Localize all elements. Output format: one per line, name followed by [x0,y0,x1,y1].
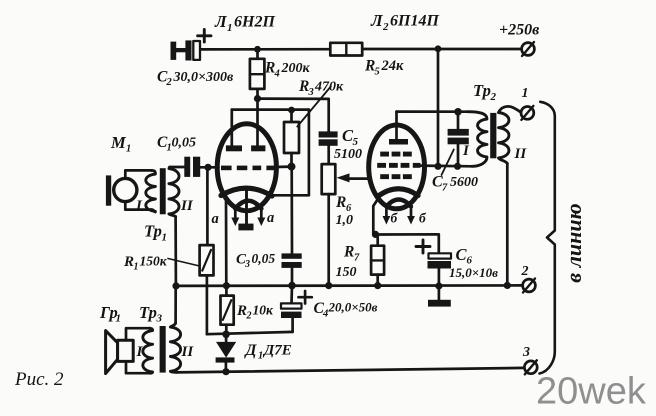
node junction R4 top on rail [254,46,261,53]
wire C4 top lead [290,286,293,304]
label tube L2 designation [370,11,439,33]
capacitor C7 bottom lead [457,144,460,166]
capacitor C1 right plate [193,157,200,177]
wire mic bottom loop [125,202,151,210]
node junction R2 top on bus [223,282,230,289]
label resistor R5 value [364,58,404,78]
node junction R7 bottom on bus [374,282,381,289]
svg-text:а: а [212,211,219,227]
svg-text:6Н2П: 6Н2П [234,14,275,31]
node junction grid left triode [204,164,211,171]
node junction below R4 [254,95,261,102]
tube L2 heater arc [386,200,411,207]
wire Tr2 winding II bottom to bus [506,164,509,286]
svg-text:Л: Л [214,12,228,31]
wire ground lead [438,286,441,300]
transformer Tr1 winding II [169,167,179,216]
wire C1 to L1 grid [200,166,218,169]
wire feedback loop right vertical [272,110,309,196]
resistor R2 power mark slash [223,300,232,320]
label transformer Tr2 [473,81,497,103]
svg-text:II: II [180,198,194,214]
svg-text:4: 4 [274,69,280,80]
capacitor C4 positive hollow plate [281,303,302,308]
wire grid right triode to R3 node [276,165,292,168]
capacitor C3 bottom plate [282,262,302,268]
tube L2 heater arrow right [410,207,413,217]
node junction C3 C4 on bus [288,282,296,290]
node junction screen drop [434,163,441,170]
svg-text:2: 2 [490,91,497,103]
wire anode line to transformer [397,110,469,113]
wire L1 cathode center lead [245,190,248,224]
resistor R7 body [371,246,384,275]
label capacitor C7 value [432,174,478,194]
svg-text:2: 2 [382,21,389,33]
tube L1 envelope [217,124,276,211]
wire C3 bottom lead [291,268,294,286]
svg-text:R: R [343,244,354,261]
tube L1 heater arrow right [260,209,263,219]
wire R7 top lead [376,234,379,245]
tube L1 cathode arc [221,188,272,196]
capacitor C5 bottom plate [319,139,338,146]
label transformer Tr1 [144,222,167,244]
svg-text:1: 1 [227,22,233,34]
tube L1 left anode plate [226,145,242,151]
transformer Tr3 winding I [143,328,153,373]
label resistor R4 value [264,60,311,80]
wire Tr1 secondary bottom to bus [174,217,177,286]
svg-text:7: 7 [442,183,448,194]
node junction C7 top [454,108,462,116]
svg-text:30,0×300в: 30,0×300в [173,70,234,85]
node junction C7 bottom [454,163,461,170]
wire bottom bus [176,368,524,373]
node junction C6 ground on bus [435,282,442,289]
svg-text:150к: 150к [140,254,168,269]
svg-text:а: а [267,210,274,226]
wire R7 bottom lead [376,275,379,286]
resistor R4 body [250,59,265,89]
svg-text:Тр: Тр [473,81,491,100]
svg-text:1: 1 [162,232,168,244]
svg-text:15,0×10в: 15,0×10в [449,265,498,280]
node junction diode top [222,331,230,339]
resistor R3 body [284,122,299,153]
tube L1 heater arrow left [234,209,237,219]
loudspeaker Gr1 box [118,340,134,361]
label tube L1 designation [214,12,275,34]
wire Tr2 winding II top to terminal 1 [499,106,522,112]
svg-text:5100: 5100 [334,147,362,162]
svg-text:0,05: 0,05 [252,251,276,266]
svg-text:Д: Д [244,342,258,359]
svg-text:1: 1 [134,262,139,273]
diode D1 triangle [216,342,236,358]
label resistor R3 value [298,78,344,98]
capacitor C1 left plate [184,157,190,177]
svg-text:R: R [123,254,134,270]
wire R3 top lead [290,110,293,122]
ground chassis bar [428,300,451,307]
resistor R5 power mark divider [345,43,347,56]
label capacitor C5 value [334,126,362,162]
microphone M1 circle [114,178,137,201]
label resistor R1 value [123,254,168,273]
svg-text:1,0: 1,0 [336,213,354,228]
label capacitor C3 value [236,251,275,270]
capacitor C6 bottom plate [428,261,452,269]
wire D1 bottom lead [225,363,228,372]
svg-text:I: I [136,344,144,360]
svg-text:М: М [110,133,127,152]
svg-text:II: II [181,344,195,360]
tube L2 heater arrow left [385,207,388,217]
node junction cathode R7 [372,231,379,238]
resistor R7 power mark divider [371,259,384,261]
label microphone M1 [110,133,131,155]
wire C1 from winding II top [170,166,185,169]
tube L2 anode plate [389,139,408,145]
wire from R4 node to C5 top [258,99,329,132]
svg-text:1: 1 [116,313,122,325]
transformer Tr3 core [160,326,166,373]
capacitor C7 top plate [448,129,469,136]
wire screen drop from rail [437,49,440,167]
svg-text:Тр: Тр [144,222,162,241]
wire L2 anode lead [395,112,398,139]
label capacitor C1 value [157,134,196,154]
svg-text:1: 1 [522,86,529,101]
wire L2 cathode lead down [373,197,379,235]
wire cathode to C6 [373,234,439,253]
svg-text:в линию: в линию [561,203,586,282]
label resistor R2 value [236,303,274,322]
resistor R4 power mark divider [250,73,265,75]
svg-text:Тр: Тр [139,303,157,322]
wire D1 top lead [225,334,228,342]
tube L1 heater arc [235,201,261,209]
wire R2 bottom lead [225,325,228,335]
wire R2 top lead [225,286,228,296]
label transformer Tr3 [139,303,163,325]
svg-text:200к: 200к [281,61,311,76]
tube L2 envelope [369,125,425,209]
svg-text:470к: 470к [314,80,344,95]
svg-text:24к: 24к [381,58,405,74]
wire R4 bottom lead [256,89,259,99]
capacitor C7 top lead [457,112,460,129]
wire speaker top loop [126,328,150,340]
label resistor R7 value [336,244,361,281]
svg-text:150: 150 [336,265,357,280]
brace to line [540,102,555,374]
microphone M1 bar [106,175,111,205]
resistor R2 body [221,296,234,325]
terminal +250v circle [522,43,535,56]
callout line R3 label [297,87,331,127]
ground chassis bar under L1 [238,224,253,231]
svg-text:3: 3 [244,259,250,270]
svg-text:10к: 10к [253,303,275,318]
capacitor C4 bottom plate [281,312,302,318]
svg-text:5600: 5600 [450,175,478,190]
resistor R6 body (potentiometer) [322,164,336,194]
label resistor R6 value [335,194,353,228]
tube L2 cathode arc [379,189,418,196]
node junction bus left end [172,282,179,289]
terminal 1 circle [521,107,534,120]
wire ground bus (middle) [176,284,522,287]
wire top +250v rail left segment [200,48,330,51]
wire R4 top lead [256,49,259,59]
wire top +250v rail right segment [362,48,521,51]
terminal 2 circle [523,279,536,292]
svg-text:4: 4 [322,309,328,320]
svg-text:R: R [236,303,247,319]
svg-text:R: R [335,194,346,211]
terminal 3 circle [524,361,537,374]
label capacitor C4 value [314,300,378,320]
resistor R1 power mark slash [202,250,211,271]
svg-text:+250в: +250в [499,22,539,39]
wire Tr3 secondary top to bus [174,286,177,323]
transformer Tr1 core [160,168,166,214]
transformer Tr2 winding II [499,113,509,164]
svg-text:1: 1 [126,144,131,155]
svg-text:0,05: 0,05 [172,136,197,151]
callout line R1 label [168,259,200,267]
capacitor C4 plus sign [299,291,312,304]
svg-text:2: 2 [246,311,252,322]
tube L2 grid dashes 3x3 [377,152,420,179]
node junction R3 top [288,107,295,114]
svg-text:6П14П: 6П14П [390,13,439,30]
wire right anode lead of L1 [256,99,259,146]
wire R6 bottom lead to bus [327,194,330,286]
wire left anode lead of L1 [230,110,233,146]
svg-text:20,0×50в: 20,0×50в [328,300,378,315]
wire C6 bottom lead to bus [438,269,441,287]
capacitor C6 positive hollow plate [429,253,452,258]
resistor R1 body [200,245,214,275]
node junction R6 bottom on bus [325,282,332,289]
resistor R5 body [330,43,362,56]
tube L1 grid dashes [221,166,275,171]
node junction screen-drop on rail [435,45,442,52]
capacitor C3 lead from grid node [290,167,293,254]
capacitor C6 plus sign [416,240,430,253]
svg-text:I: I [462,143,470,159]
loudspeaker Gr1 horn [106,331,118,374]
wire diode node horizontal [207,332,293,334]
capacitor C5 top plate [319,131,338,137]
callout line C7 label [442,150,454,176]
capacitor C3 top plate [282,253,302,258]
wire R1 top lead from grid node [206,167,209,245]
label loudspeaker Gr1 [99,303,121,325]
arrow wiper from L2 grid to R6 [348,177,369,180]
capacitor C2 left plate [171,42,177,60]
wire mic top loop [125,170,151,178]
svg-text:7: 7 [354,253,360,264]
capacitor C7 bottom plate [448,138,469,145]
node junction R3 bottom grid [288,163,296,171]
svg-text:20wek: 20wek [536,371,647,413]
diode D1 cathode bar [216,357,235,362]
label diode D1 type [244,342,292,362]
capacitor C2 positive hollow plate [193,41,200,60]
svg-text:3: 3 [156,313,163,325]
wire L1 left cathode down to bus [225,198,228,286]
svg-text:Рис. 2: Рис. 2 [14,369,64,390]
transformer Tr2 winding I [468,112,487,167]
wire C5 bottom lead to R6 [327,146,330,164]
svg-text:3: 3 [522,345,530,360]
transformer Tr3 winding II [170,323,180,372]
wire anode line y109 [232,108,309,111]
capacitor C2 middle plate [185,40,191,60]
svg-text:1: 1 [258,351,263,362]
wire R1 bottom lead [206,275,209,334]
svg-text:2: 2 [521,264,529,279]
wire screen grid line [419,164,472,167]
node junction diode bottom on bottom bus [222,368,229,375]
svg-text:5: 5 [375,67,380,78]
capacitor C2 plus sign [198,30,211,43]
capacitor C2 lead stub [176,48,186,52]
svg-text:3: 3 [308,87,314,98]
wire R3 bottom lead [290,153,293,167]
svg-text:I: I [135,198,143,214]
label capacitor C2 value [157,69,234,89]
wire C4 bottom lead to diode node [291,318,294,332]
label capacitor C6 value [449,245,498,280]
svg-text:Д7Е: Д7Е [262,343,292,359]
svg-text:Л: Л [370,11,384,30]
node junction Tr2 secondary on bus [504,282,511,289]
transformer Tr1 winding I [146,170,156,212]
wire speaker bottom loop [126,361,150,373]
svg-text:II: II [514,146,528,162]
tube L1 right anode plate [251,145,265,151]
transformer Tr2 core [490,113,496,158]
svg-text:2: 2 [166,77,173,88]
